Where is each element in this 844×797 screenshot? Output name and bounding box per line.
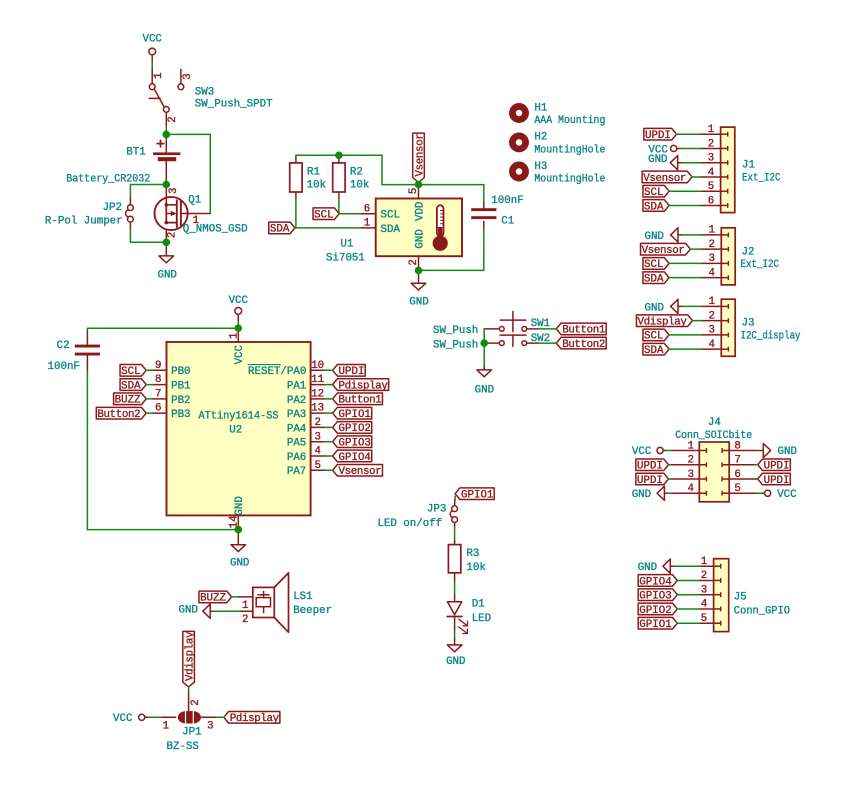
svg-text:D1: D1 bbox=[472, 598, 485, 610]
svg-text:BUZZ: BUZZ bbox=[200, 593, 226, 605]
svg-text:VCC: VCC bbox=[113, 713, 133, 725]
svg-text:Si7051: Si7051 bbox=[326, 253, 365, 265]
svg-text:SDA: SDA bbox=[644, 201, 664, 213]
svg-text:13: 13 bbox=[311, 403, 324, 415]
svg-text:3: 3 bbox=[182, 73, 194, 79]
wire bbox=[454, 528, 456, 542]
svg-text:GND: GND bbox=[475, 384, 494, 396]
wire bbox=[755, 478, 758, 480]
battery BT1 Battery_CR2032 bbox=[165, 134, 167, 152]
svg-text:SDA: SDA bbox=[381, 224, 401, 236]
svg-text:RESET/PA0: RESET/PA0 bbox=[248, 366, 306, 378]
pin 6 PB3 bbox=[152, 412, 166, 414]
svg-text:AAA Mounting: AAA Mounting bbox=[534, 115, 605, 127]
wire bbox=[237, 322, 239, 328]
global label SCL bbox=[313, 208, 339, 220]
svg-text:H2: H2 bbox=[534, 132, 547, 144]
pin 10 RESET/PA0 bbox=[311, 369, 325, 371]
global label Button2 bbox=[96, 407, 146, 419]
svg-text:2: 2 bbox=[242, 614, 248, 626]
power flag VCC bbox=[139, 714, 145, 720]
svg-text:Vsensor: Vsensor bbox=[642, 245, 685, 257]
svg-text:11: 11 bbox=[311, 374, 324, 386]
junction bbox=[335, 152, 343, 160]
wire bbox=[325, 426, 333, 428]
svg-text:Pdisplay: Pdisplay bbox=[230, 713, 280, 725]
svg-text:Vdisplay: Vdisplay bbox=[184, 631, 196, 681]
wire bbox=[690, 248, 701, 250]
wire bbox=[669, 190, 700, 192]
solder jumper JP1 BZ-SS bbox=[188, 692, 190, 711]
wire bbox=[146, 384, 152, 386]
svg-text:Button2: Button2 bbox=[97, 409, 140, 421]
svg-text:LS1: LS1 bbox=[293, 591, 312, 603]
svg-text:2: 2 bbox=[708, 310, 714, 322]
svg-text:PB2: PB2 bbox=[171, 395, 190, 407]
wire bbox=[677, 579, 699, 581]
svg-text:2: 2 bbox=[708, 138, 714, 150]
svg-text:GND: GND bbox=[230, 558, 249, 570]
svg-text:2: 2 bbox=[190, 699, 202, 705]
svg-text:Button1: Button1 bbox=[562, 325, 605, 337]
svg-text:4: 4 bbox=[687, 483, 693, 495]
svg-text:Vsensor: Vsensor bbox=[643, 173, 686, 185]
connector J3 I2C_display bbox=[721, 299, 735, 356]
svg-text:C2: C2 bbox=[57, 340, 70, 352]
svg-text:VCC: VCC bbox=[777, 489, 797, 501]
svg-text:GPIO2: GPIO2 bbox=[639, 605, 671, 617]
svg-text:7: 7 bbox=[734, 455, 740, 467]
pin 2 GND bbox=[418, 256, 420, 270]
power flag GND bbox=[203, 604, 210, 618]
wire bbox=[339, 154, 382, 156]
wire bbox=[674, 565, 699, 567]
global label SCL bbox=[643, 185, 669, 197]
svg-text:SCL: SCL bbox=[644, 331, 663, 343]
wire bbox=[669, 464, 671, 466]
svg-text:2: 2 bbox=[701, 570, 707, 582]
svg-text:U2: U2 bbox=[229, 425, 242, 437]
svg-text:UPDI: UPDI bbox=[637, 475, 663, 487]
svg-text:SDA: SDA bbox=[121, 380, 141, 392]
svg-text:R2: R2 bbox=[350, 167, 363, 179]
capacitor C2 100nF bbox=[86, 328, 88, 331]
pin 11 PA1 bbox=[311, 384, 325, 386]
svg-text:8: 8 bbox=[734, 440, 740, 452]
junction bbox=[235, 526, 243, 534]
wire bbox=[86, 371, 88, 529]
wire bbox=[214, 610, 239, 612]
wire bbox=[129, 185, 131, 199]
global label GPIO4 bbox=[333, 450, 372, 462]
wire bbox=[295, 227, 362, 229]
svg-text:C1: C1 bbox=[501, 215, 514, 227]
svg-text:Ext_I2C: Ext_I2C bbox=[742, 172, 781, 184]
power flag GND (pin 1) bbox=[663, 559, 670, 573]
svg-text:Q1: Q1 bbox=[188, 194, 201, 206]
wire bbox=[130, 184, 166, 186]
wire bbox=[325, 398, 333, 400]
svg-text:R-Pol Jumper: R-Pol Jumper bbox=[45, 216, 123, 228]
svg-text:4: 4 bbox=[314, 446, 320, 458]
svg-text:6: 6 bbox=[734, 469, 740, 481]
svg-text:5: 5 bbox=[314, 460, 320, 472]
global label SCL bbox=[643, 258, 669, 270]
svg-text:PB3: PB3 bbox=[171, 409, 190, 421]
pin 13 PA3 bbox=[311, 412, 325, 414]
wire bbox=[677, 133, 701, 135]
wire bbox=[146, 369, 152, 371]
svg-text:6: 6 bbox=[155, 403, 161, 415]
global label GPIO4 bbox=[638, 575, 677, 587]
wire bbox=[419, 184, 484, 186]
svg-text:UPDI: UPDI bbox=[764, 461, 790, 473]
wire bbox=[209, 134, 211, 213]
svg-text:J2: J2 bbox=[742, 246, 755, 258]
ground bbox=[483, 366, 485, 370]
svg-text:9: 9 bbox=[155, 360, 161, 372]
global label Pdisplay bbox=[224, 712, 280, 724]
global label Vsensor bbox=[641, 243, 691, 255]
wire bbox=[483, 329, 485, 343]
pin 5 PA7 bbox=[311, 469, 325, 471]
wire bbox=[325, 441, 333, 443]
svg-text:GND: GND bbox=[179, 604, 198, 616]
svg-text:SCL: SCL bbox=[381, 210, 400, 222]
svg-text:Button2: Button2 bbox=[562, 339, 605, 351]
global label Vdisplay (vertical) bbox=[183, 631, 195, 687]
global label Vdisplay bbox=[636, 315, 692, 327]
svg-text:8: 8 bbox=[155, 374, 161, 386]
svg-text:I2C_display: I2C_display bbox=[741, 330, 801, 342]
svg-text:6: 6 bbox=[364, 203, 370, 215]
svg-text:UPDI: UPDI bbox=[339, 366, 365, 378]
svg-text:GND: GND bbox=[645, 303, 664, 315]
svg-text:VCC: VCC bbox=[229, 295, 249, 307]
global label Button1 bbox=[556, 323, 606, 335]
wire bbox=[454, 496, 456, 500]
wire bbox=[755, 464, 758, 466]
svg-text:JP3: JP3 bbox=[427, 503, 446, 515]
IC U1 Si7051 bbox=[376, 199, 462, 257]
ground bbox=[237, 530, 239, 545]
svg-text:SCL: SCL bbox=[121, 366, 140, 378]
wire bbox=[683, 305, 702, 307]
pin 12 PA2 bbox=[311, 398, 325, 400]
wire bbox=[677, 594, 699, 596]
svg-text:Battery_CR2032: Battery_CR2032 bbox=[66, 173, 150, 185]
svg-text:3: 3 bbox=[701, 584, 707, 596]
power flag GND bbox=[670, 156, 677, 170]
svg-text:GPIO1: GPIO1 bbox=[639, 619, 671, 631]
wire bbox=[338, 199, 340, 214]
svg-text:GPIO2: GPIO2 bbox=[339, 423, 371, 435]
svg-text:MountingHole: MountingHole bbox=[534, 144, 605, 156]
power flag VCC (pin 5) bbox=[765, 490, 771, 496]
svg-text:1: 1 bbox=[364, 218, 370, 230]
global label Vsensor (vertical) bbox=[413, 133, 425, 182]
svg-text:GPIO3: GPIO3 bbox=[339, 438, 371, 450]
svg-text:R1: R1 bbox=[307, 167, 320, 179]
svg-text:5: 5 bbox=[701, 613, 707, 625]
resistor R1 10k bbox=[295, 155, 297, 157]
svg-text:6: 6 bbox=[708, 195, 714, 207]
transistor Q1 Q_NMOS_GSD bbox=[155, 197, 188, 230]
global label UPDI bbox=[644, 128, 677, 140]
svg-text:BT1: BT1 bbox=[126, 147, 145, 159]
svg-text:Vsensor: Vsensor bbox=[339, 466, 382, 478]
wire bbox=[693, 320, 702, 322]
svg-text:4: 4 bbox=[708, 339, 714, 351]
svg-text:PB0: PB0 bbox=[171, 366, 190, 378]
svg-text:SCL: SCL bbox=[644, 187, 663, 199]
wire bbox=[669, 334, 701, 336]
svg-text:GND: GND bbox=[409, 296, 428, 308]
svg-text:UPDI: UPDI bbox=[645, 130, 671, 142]
global label GPIO1 bbox=[455, 488, 494, 500]
mounting hole H1 bbox=[512, 106, 525, 119]
wire bbox=[188, 687, 190, 692]
wire bbox=[146, 398, 152, 400]
wire bbox=[146, 412, 152, 414]
svg-text:1: 1 bbox=[708, 225, 714, 237]
wire bbox=[677, 622, 699, 624]
svg-text:10: 10 bbox=[311, 360, 324, 372]
svg-text:3: 3 bbox=[168, 188, 180, 194]
svg-text:PA4: PA4 bbox=[287, 423, 306, 435]
global label UPDI (pin 6) bbox=[758, 473, 791, 485]
svg-text:GND: GND bbox=[234, 496, 246, 515]
svg-text:3: 3 bbox=[708, 153, 714, 165]
svg-text:GND: GND bbox=[414, 229, 426, 248]
svg-text:1: 1 bbox=[708, 124, 714, 136]
wire bbox=[483, 343, 485, 366]
svg-text:J1: J1 bbox=[742, 160, 755, 172]
svg-text:PB1: PB1 bbox=[171, 380, 190, 392]
global label BUZZ bbox=[114, 393, 147, 405]
svg-text:GND: GND bbox=[638, 562, 657, 574]
svg-text:UPDI: UPDI bbox=[637, 461, 663, 473]
svg-text:Conn_GPIO: Conn_GPIO bbox=[734, 605, 790, 617]
svg-text:PA1: PA1 bbox=[287, 380, 306, 392]
svg-text:SDA: SDA bbox=[270, 224, 290, 236]
global label GPIO3 bbox=[333, 436, 372, 448]
wire bbox=[165, 127, 167, 135]
svg-text:3: 3 bbox=[314, 431, 320, 443]
ground bbox=[418, 270, 420, 275]
svg-text:LED: LED bbox=[472, 613, 491, 625]
wire bbox=[325, 455, 333, 457]
svg-text:1: 1 bbox=[153, 72, 165, 78]
svg-text:SDA: SDA bbox=[644, 345, 664, 357]
svg-text:5: 5 bbox=[734, 483, 740, 495]
mounting hole H3 bbox=[512, 165, 525, 178]
pin 8 PB1 bbox=[152, 384, 166, 386]
junction bbox=[163, 131, 171, 139]
capacitor C1 100nF bbox=[483, 185, 485, 203]
wire bbox=[148, 716, 161, 718]
wire bbox=[381, 155, 383, 184]
svg-text:GPIO1: GPIO1 bbox=[461, 490, 493, 502]
wire bbox=[165, 242, 167, 247]
svg-text:GPIO3: GPIO3 bbox=[639, 591, 671, 603]
wire bbox=[669, 262, 701, 264]
global label GPIO2 bbox=[333, 422, 372, 434]
global label Vsensor bbox=[333, 464, 383, 476]
svg-text:GND: GND bbox=[645, 231, 664, 243]
switch SW2 SW_Push bbox=[499, 341, 504, 346]
svg-text:GND: GND bbox=[157, 269, 176, 281]
pin 7 PB2 bbox=[152, 398, 166, 400]
switch SW3 SW_Push_SPDT bbox=[151, 69, 153, 84]
resistor R2 10k bbox=[338, 155, 340, 163]
pin 3 PA5 bbox=[311, 441, 325, 443]
pin 14 GND bbox=[237, 515, 239, 529]
global label SCL bbox=[120, 365, 146, 377]
svg-text:2: 2 bbox=[408, 259, 420, 265]
svg-text:Vsensor: Vsensor bbox=[414, 133, 426, 176]
junction bbox=[415, 267, 423, 275]
pin 4 PA6 bbox=[311, 455, 325, 457]
wire bbox=[325, 469, 333, 471]
speaker LS1 Beeper bbox=[239, 596, 253, 598]
svg-text:R3: R3 bbox=[466, 548, 479, 560]
svg-text:12: 12 bbox=[311, 388, 324, 400]
svg-text:LED on/off: LED on/off bbox=[377, 518, 442, 530]
svg-text:SW_Push: SW_Push bbox=[433, 325, 478, 337]
wire bbox=[667, 450, 671, 452]
global label GPIO3 bbox=[638, 589, 677, 601]
connector J2 Ext_I2C bbox=[721, 228, 735, 285]
svg-text:PA3: PA3 bbox=[287, 409, 306, 421]
pin 5 VDD bbox=[418, 185, 420, 199]
svg-text:SDA: SDA bbox=[644, 273, 664, 285]
power flag GND bbox=[671, 228, 678, 242]
global label SDA bbox=[643, 343, 669, 355]
svg-text:JP1: JP1 bbox=[182, 727, 201, 739]
svg-text:3: 3 bbox=[708, 325, 714, 337]
wire bbox=[325, 369, 333, 371]
wire bbox=[232, 596, 239, 598]
svg-text:2: 2 bbox=[708, 239, 714, 251]
svg-text:4: 4 bbox=[701, 599, 707, 611]
svg-text:100nF: 100nF bbox=[48, 361, 80, 373]
global label Pdisplay bbox=[333, 379, 389, 391]
svg-text:3: 3 bbox=[207, 720, 213, 732]
svg-text:3: 3 bbox=[687, 469, 693, 481]
resistor R3 10k bbox=[454, 541, 456, 545]
wire bbox=[668, 492, 671, 494]
svg-text:GPIO4: GPIO4 bbox=[639, 576, 671, 588]
svg-text:PA6: PA6 bbox=[287, 452, 306, 464]
pin 9 PB0 bbox=[152, 369, 166, 371]
svg-text:1: 1 bbox=[229, 332, 241, 338]
ground bbox=[454, 638, 456, 645]
svg-text:SCL: SCL bbox=[314, 210, 333, 222]
svg-text:VCC: VCC bbox=[234, 344, 246, 364]
svg-text:1: 1 bbox=[687, 440, 693, 452]
connector J1 Ext_I2C bbox=[721, 127, 735, 213]
wire bbox=[692, 176, 700, 178]
wire bbox=[325, 384, 333, 386]
wire bbox=[539, 342, 557, 344]
svg-text:100nF: 100nF bbox=[491, 195, 523, 207]
wire bbox=[669, 204, 700, 206]
svg-text:Pdisplay: Pdisplay bbox=[339, 380, 389, 392]
svg-text:3: 3 bbox=[708, 253, 714, 265]
svg-text:10k: 10k bbox=[466, 562, 485, 574]
wire bbox=[681, 147, 701, 149]
svg-text:4: 4 bbox=[708, 167, 714, 179]
global label GPIO2 bbox=[638, 603, 677, 615]
svg-text:5: 5 bbox=[708, 181, 714, 193]
global label GPIO1 bbox=[638, 617, 677, 629]
wire bbox=[683, 234, 702, 236]
global label SDA bbox=[643, 200, 669, 212]
svg-text:7: 7 bbox=[155, 388, 161, 400]
wire bbox=[216, 716, 223, 718]
wire bbox=[419, 269, 484, 271]
svg-text:H1: H1 bbox=[534, 102, 547, 114]
power flag VCC bbox=[671, 145, 677, 151]
svg-text:SW3: SW3 bbox=[195, 86, 214, 98]
wire bbox=[129, 230, 131, 243]
svg-text:SW_Push_SPDT: SW_Push_SPDT bbox=[195, 98, 273, 110]
svg-text:1: 1 bbox=[708, 296, 714, 308]
mounting hole H2 bbox=[512, 136, 525, 149]
svg-text:10k: 10k bbox=[307, 180, 326, 192]
global label SDA bbox=[269, 222, 295, 234]
svg-text:SW_Push: SW_Push bbox=[433, 340, 478, 352]
svg-text:GND: GND bbox=[632, 489, 651, 501]
global label GPIO1 bbox=[333, 407, 372, 419]
wire bbox=[87, 327, 238, 329]
global label SDA bbox=[120, 379, 146, 391]
IC U2 ATtiny1614-SS bbox=[167, 342, 311, 515]
wire bbox=[682, 162, 700, 164]
junction bbox=[163, 181, 171, 189]
wire bbox=[669, 348, 701, 350]
svg-text:J3: J3 bbox=[742, 317, 755, 329]
wire bbox=[151, 62, 153, 69]
wire bbox=[339, 213, 361, 215]
global label UPDI (pin 2) bbox=[636, 459, 669, 471]
svg-text:VCC: VCC bbox=[632, 446, 652, 458]
svg-text:UPDI: UPDI bbox=[764, 475, 790, 487]
global label UPDI bbox=[333, 365, 366, 377]
global label Button1 bbox=[333, 393, 383, 405]
junction bbox=[480, 339, 488, 347]
svg-text:U1: U1 bbox=[340, 238, 353, 250]
thermometer icon bbox=[433, 205, 448, 251]
svg-text:GPIO1: GPIO1 bbox=[339, 409, 371, 421]
svg-text:J5: J5 bbox=[734, 592, 747, 604]
wire bbox=[382, 184, 419, 186]
svg-text:PA2: PA2 bbox=[287, 395, 306, 407]
svg-text:GND: GND bbox=[648, 154, 667, 166]
svg-text:5: 5 bbox=[408, 188, 420, 194]
svg-text:JP2: JP2 bbox=[103, 202, 122, 214]
global label Button2 bbox=[556, 337, 606, 349]
svg-text:Q_NMOS_GSD: Q_NMOS_GSD bbox=[183, 224, 248, 236]
junction bbox=[415, 181, 423, 189]
global label UPDI (pin 7) bbox=[758, 459, 791, 471]
wire bbox=[295, 199, 297, 228]
svg-text:H3: H3 bbox=[534, 161, 547, 173]
power flag VCC (pin 1) bbox=[657, 447, 663, 453]
svg-text:GND: GND bbox=[446, 656, 465, 668]
wire bbox=[454, 581, 456, 596]
